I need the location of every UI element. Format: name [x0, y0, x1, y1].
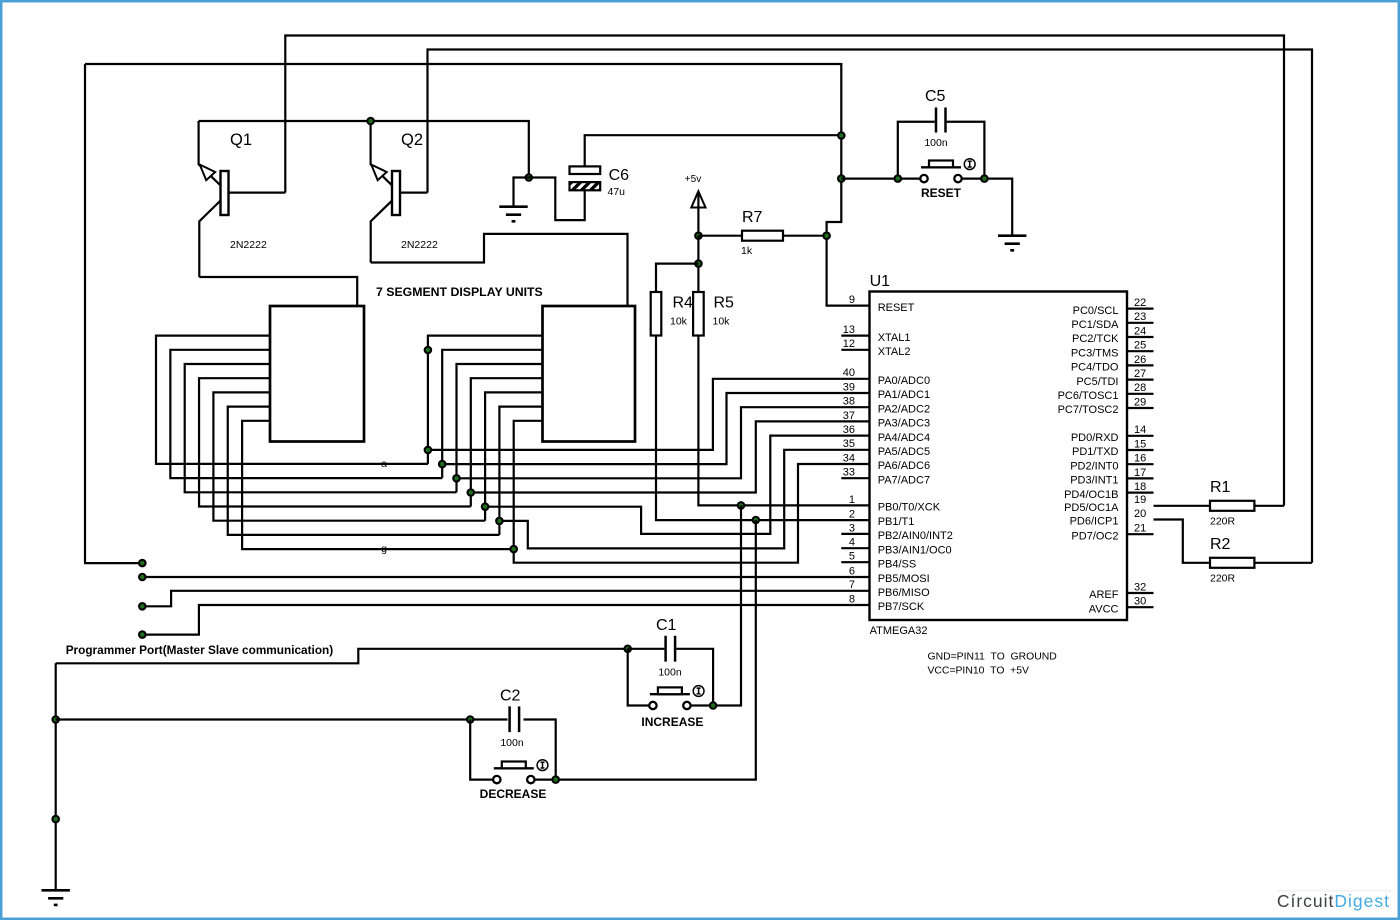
- svg-text:R5: R5: [714, 295, 735, 312]
- wire increase feed: [56, 649, 628, 664]
- svg-text:PD1/TXD: PD1/TXD: [1072, 446, 1119, 458]
- wire display2 segment e: [485, 392, 542, 520]
- svg-text:1k: 1k: [741, 245, 753, 257]
- pin 27 PC5/TDI: [1076, 368, 1153, 388]
- pin 2 PB1/T1: [849, 508, 915, 528]
- node reset row left: [837, 174, 846, 183]
- node C5 right: [980, 174, 989, 183]
- pin 19 PD5/OC1A: [1064, 494, 1146, 514]
- capacitor C5 (100n): [898, 108, 985, 179]
- ground G2: [998, 236, 1026, 251]
- wire rail3 to RESET pin: [85, 64, 870, 306]
- 7-segment display block 1: [270, 306, 364, 442]
- wire +5v down to R5: [697, 236, 699, 292]
- node C6-ground junction: [525, 173, 534, 182]
- svg-text:29: 29: [1134, 396, 1146, 408]
- svg-text:40: 40: [843, 367, 855, 379]
- pin 34 PA6/ADC6: [843, 452, 930, 472]
- svg-text:220R: 220R: [1210, 573, 1236, 585]
- pin 28 PC6/TOSC1: [1058, 382, 1154, 402]
- node PB1-DECREASE junction: [752, 516, 761, 525]
- wire C6 bottom lead: [529, 178, 585, 221]
- wire R4 to PB1 row: [656, 336, 870, 521]
- svg-text:R2: R2: [1210, 536, 1231, 553]
- transistor Q1: [199, 121, 286, 277]
- pin 8 PB7/SCK: [849, 593, 925, 613]
- wire PD6 to R2: [1154, 520, 1211, 563]
- resistor R4: [651, 292, 662, 336]
- svg-text:R4: R4: [673, 295, 694, 312]
- pin 30 AVCC: [1089, 596, 1154, 616]
- wire button INCREASE right: [691, 704, 713, 706]
- pin 1 PB0/T0/XCK: [849, 494, 941, 514]
- ground G1: [499, 207, 527, 222]
- node segment b junction: [438, 460, 447, 469]
- wire INCREASE vertical: [713, 505, 741, 705]
- wire display1 segment e: [213, 392, 485, 520]
- wire C1 to button left: [628, 649, 650, 706]
- svg-text:ATMEGA32: ATMEGA32: [870, 625, 928, 637]
- wire R5 to PB0 row: [698, 336, 869, 506]
- svg-text:10k: 10k: [670, 316, 688, 328]
- svg-text:30: 30: [1134, 596, 1146, 608]
- push button INCREASE: [649, 686, 704, 710]
- push button RESET: [920, 159, 975, 183]
- wire display1 segment c: [185, 364, 457, 492]
- pin 17 PD3/INT1: [1070, 467, 1153, 487]
- svg-text:25: 25: [1134, 340, 1146, 352]
- svg-text:PB1/T1: PB1/T1: [878, 516, 915, 528]
- node C5 left: [894, 174, 903, 183]
- svg-text:AREF: AREF: [1089, 589, 1119, 601]
- node port 1: [138, 559, 147, 568]
- wire to ground G1: [514, 178, 529, 207]
- wire left ground rail: [55, 663, 57, 890]
- svg-text:XTAL1: XTAL1: [878, 332, 911, 344]
- wire Q1 emitter to display1: [199, 277, 357, 306]
- pin 6 PB5/MOSI: [849, 565, 930, 585]
- wire DECREASE vertical: [556, 520, 756, 780]
- svg-text:PC1/SDA: PC1/SDA: [1071, 319, 1119, 331]
- wire net-e to PA4: [485, 436, 869, 534]
- svg-text:PB5/MOSI: PB5/MOSI: [878, 573, 930, 585]
- pin 9 RESET: [849, 294, 915, 314]
- svg-text:22: 22: [1134, 297, 1146, 309]
- wire +5v to R7: [698, 235, 742, 237]
- node segment c junction: [452, 474, 461, 483]
- resistor R1: [1210, 501, 1254, 511]
- wire button DECREASE right: [535, 778, 556, 780]
- wire display1 segment g: [242, 421, 514, 549]
- wire C6 top lead to rail: [585, 135, 842, 166]
- svg-text:PC6/TOSC1: PC6/TOSC1: [1058, 390, 1119, 402]
- pin 22 PC0/SCL: [1073, 297, 1154, 317]
- svg-text:Q2: Q2: [401, 131, 423, 149]
- pin 20 PD6/ICP1: [1070, 508, 1147, 528]
- svg-text:U1: U1: [870, 273, 891, 290]
- node R4-R5 junction: [694, 259, 703, 268]
- svg-text:C1: C1: [656, 617, 677, 634]
- capacitor C6 (electrolytic 47u): [570, 166, 601, 190]
- svg-text:PA4/ADC4: PA4/ADC4: [878, 432, 930, 444]
- capacitor C2 (100n): [510, 706, 556, 779]
- svg-text:37: 37: [843, 410, 855, 422]
- svg-text:33: 33: [843, 467, 855, 479]
- pin 3 PB2/AIN0/INT2: [841, 522, 953, 542]
- svg-text:36: 36: [843, 424, 855, 436]
- pin 38 PA2/ADC2: [843, 396, 930, 416]
- svg-text:PC2/TCK: PC2/TCK: [1072, 333, 1119, 345]
- svg-text:C6: C6: [609, 167, 630, 184]
- pin 4 PB3/AIN1/OC0: [841, 537, 951, 557]
- logo rule: [1277, 890, 1393, 891]
- node segment g junction: [509, 545, 518, 554]
- wire R7 to reset node: [783, 235, 827, 237]
- pin 12 XTAL2: [841, 338, 910, 358]
- node decrease tap: [51, 715, 60, 724]
- svg-text:PB6/MISO: PB6/MISO: [878, 587, 930, 599]
- node segment a junction: [424, 446, 433, 455]
- svg-text:Q1: Q1: [230, 131, 252, 149]
- wire PD5 to R1: [1154, 505, 1211, 507]
- svg-text:PD6/ICP1: PD6/ICP1: [1070, 516, 1119, 528]
- svg-text:PA2/ADC2: PA2/ADC2: [878, 403, 930, 415]
- wire display1 segment f: [228, 407, 500, 535]
- svg-text:4: 4: [849, 537, 855, 549]
- pin 21 PD7/OC2: [1071, 523, 1153, 543]
- wire Q1 top rail to C6 node: [199, 121, 529, 178]
- svg-text:INCREASE: INCREASE: [641, 715, 703, 729]
- svg-text:PA7/ADC7: PA7/ADC7: [878, 474, 930, 486]
- resistor R5: [693, 292, 704, 336]
- svg-text:PB0/T0/XCK: PB0/T0/XCK: [878, 502, 941, 514]
- svg-text:18: 18: [1134, 481, 1146, 493]
- svg-text:26: 26: [1134, 354, 1146, 366]
- wire net-b to PA1: [442, 393, 869, 464]
- svg-text:23: 23: [1134, 311, 1146, 323]
- svg-text:100n: 100n: [500, 737, 524, 749]
- svg-text:39: 39: [843, 381, 855, 393]
- wire display1 segment a: [156, 336, 428, 464]
- svg-text:2N2222: 2N2222: [401, 239, 438, 251]
- svg-text:47u: 47u: [608, 186, 626, 198]
- pin 16 PD2/INT0: [1070, 453, 1153, 473]
- pin 13 XTAL1: [841, 324, 910, 344]
- capacitor C1 (100n): [628, 636, 713, 706]
- pin 23 PC1/SDA: [1071, 311, 1153, 331]
- pin 25 PC3/TMS: [1071, 340, 1154, 360]
- svg-text:PA1/ADC1: PA1/ADC1: [878, 389, 930, 401]
- node DECREASE right: [551, 775, 560, 784]
- svg-text:35: 35: [843, 438, 855, 450]
- svg-text:PD3/INT1: PD3/INT1: [1070, 475, 1118, 487]
- wire PB6 row: [142, 591, 869, 607]
- svg-text:20: 20: [1134, 508, 1146, 520]
- pin 15 PD1/TXD: [1072, 438, 1153, 458]
- svg-text:19: 19: [1134, 494, 1146, 506]
- svg-text:PC0/SCL: PC0/SCL: [1073, 305, 1119, 317]
- wire C2 to button left: [470, 720, 493, 780]
- node segment e junction: [481, 502, 490, 511]
- svg-text:PC4/TDO: PC4/TDO: [1071, 362, 1119, 374]
- svg-text:10k: 10k: [713, 316, 731, 328]
- svg-text:GND=PIN11 TO GROUND: GND=PIN11 TO GROUND: [928, 652, 1057, 663]
- svg-text:RESET: RESET: [878, 302, 915, 314]
- svg-text:DECREASE: DECREASE: [480, 787, 547, 801]
- svg-text:PB2/AIN0/INT2: PB2/AIN0/INT2: [878, 530, 953, 542]
- svg-text:24: 24: [1134, 325, 1146, 337]
- svg-text:PD0/RXD: PD0/RXD: [1071, 432, 1119, 444]
- wire Q2-base to rail2 to R2 net: [428, 50, 1313, 563]
- svg-text:220R: 220R: [1210, 516, 1236, 528]
- wire net-f to PA5: [499, 450, 869, 549]
- pin 35 PA5/ADC5: [843, 438, 930, 458]
- node C6-rail junction: [837, 131, 846, 140]
- pin 40 PA0/ADC0: [843, 367, 930, 387]
- node PB0-INCREASE junction: [737, 501, 746, 510]
- svg-text:6: 6: [849, 565, 855, 577]
- transistor Q2: [371, 121, 428, 263]
- svg-text:9: 9: [849, 294, 855, 306]
- svg-text:a: a: [381, 458, 387, 470]
- pin 39 PA1/ADC1: [843, 381, 930, 401]
- svg-text:PA0/ADC0: PA0/ADC0: [878, 375, 930, 387]
- node Q2 collector junction: [366, 117, 375, 126]
- wire button to ground G2: [962, 179, 1013, 236]
- node bundle artifact: [424, 346, 433, 355]
- svg-text:PB7/SCK: PB7/SCK: [878, 601, 925, 613]
- svg-text:100n: 100n: [658, 667, 682, 679]
- resistor R7: [742, 231, 783, 241]
- wire R1 to rail1: [1254, 505, 1284, 507]
- pin 26 PC4/TDO: [1071, 354, 1154, 374]
- svg-text:21: 21: [1134, 523, 1146, 535]
- wire PB5 row: [142, 576, 869, 578]
- wire display2 segment g to PA6: [514, 421, 870, 563]
- svg-text:AVCC: AVCC: [1089, 603, 1119, 615]
- op-amp U1 body (ATMEGA32): [870, 292, 1128, 621]
- svg-text:5: 5: [849, 551, 855, 563]
- svg-text:R7: R7: [742, 209, 763, 226]
- wire display1 segment d: [199, 378, 471, 506]
- svg-text:PC7/TOSC2: PC7/TOSC2: [1058, 404, 1119, 416]
- node segment d junction: [467, 488, 476, 497]
- svg-text:C2: C2: [500, 688, 521, 705]
- node C2 left: [466, 715, 475, 724]
- node +5v: [694, 231, 703, 240]
- wire Q2 emitter to display2: [371, 234, 628, 306]
- node INCREASE right: [709, 701, 718, 710]
- svg-text:g: g: [381, 543, 387, 555]
- svg-text:27: 27: [1134, 368, 1146, 380]
- wire Q1-base to rail1 to R1 net: [285, 36, 1284, 506]
- svg-text:28: 28: [1134, 382, 1146, 394]
- node port 4: [138, 630, 147, 639]
- svg-text:PC5/TDI: PC5/TDI: [1076, 376, 1118, 388]
- svg-text:2: 2: [849, 508, 855, 520]
- push button DECREASE: [493, 760, 548, 784]
- svg-text:12: 12: [843, 338, 855, 350]
- svg-text:PA3/ADC3: PA3/ADC3: [878, 418, 930, 430]
- resistor R2: [1210, 558, 1254, 568]
- node rail artifact: [51, 815, 60, 824]
- svg-text:7: 7: [849, 579, 855, 591]
- svg-text:17: 17: [1134, 467, 1146, 479]
- svg-text:13: 13: [843, 324, 855, 336]
- svg-text:16: 16: [1134, 453, 1146, 465]
- svg-text:CírcuitDigest: CírcuitDigest: [1277, 891, 1390, 911]
- wire net-d to PA3: [471, 421, 870, 492]
- node port 2: [138, 573, 147, 582]
- svg-text:15: 15: [1134, 438, 1146, 450]
- svg-text:32: 32: [1134, 581, 1146, 593]
- svg-text:R1: R1: [1210, 479, 1231, 496]
- node R7-RESET junction: [822, 231, 831, 240]
- svg-text:PD4/OC1B: PD4/OC1B: [1064, 489, 1118, 501]
- svg-text:XTAL2: XTAL2: [878, 346, 911, 358]
- svg-text:VCC=PIN10 TO +5V: VCC=PIN10 TO +5V: [928, 666, 1030, 677]
- svg-text:38: 38: [843, 396, 855, 408]
- ground G3: [42, 890, 70, 905]
- 7-segment display block 2: [543, 306, 636, 442]
- svg-text:PA6/ADC6: PA6/ADC6: [878, 460, 930, 472]
- svg-text:2N2222: 2N2222: [230, 239, 267, 251]
- pin 24 PC2/TCK: [1072, 325, 1153, 345]
- svg-text:PD5/OC1A: PD5/OC1A: [1064, 502, 1119, 514]
- wire left rail down to programmer port: [85, 64, 142, 563]
- pin 18 PD4/OC1B: [1064, 481, 1153, 501]
- wire display2 segment b: [442, 350, 542, 478]
- pin 36 PA4/ADC4: [843, 424, 930, 444]
- pin 29 PC7/TOSC2: [1058, 396, 1154, 416]
- wire net-a to PA0: [428, 379, 870, 450]
- svg-text:C5: C5: [925, 88, 946, 105]
- pin 5 PB4/SS: [841, 551, 916, 571]
- wire display2 segment f: [499, 407, 542, 535]
- svg-text:100n: 100n: [924, 137, 948, 149]
- svg-text:PC3/TMS: PC3/TMS: [1071, 347, 1119, 359]
- node port 3: [138, 602, 147, 611]
- svg-text:1: 1: [849, 494, 855, 506]
- svg-text:+5v: +5v: [685, 174, 701, 185]
- wire display2 segment d: [471, 378, 543, 506]
- svg-text:8: 8: [849, 593, 855, 605]
- wire net-c to PA2: [457, 407, 870, 478]
- wire to R4: [656, 264, 698, 292]
- wire decrease feed: [56, 718, 508, 720]
- node C1 left: [623, 645, 632, 654]
- svg-text:3: 3: [849, 522, 855, 534]
- svg-text:PD2/INT0: PD2/INT0: [1070, 460, 1118, 472]
- pin 33 PA7/ADC7: [841, 467, 930, 487]
- wire R2 to rail2: [1254, 562, 1312, 564]
- svg-text:7 SEGMENT DISPLAY UNITS: 7 SEGMENT DISPLAY UNITS: [376, 285, 543, 299]
- wire display1 segment b: [170, 350, 442, 478]
- svg-text:PB3/AIN1/OC0: PB3/AIN1/OC0: [878, 544, 952, 556]
- pin 32 AREF: [1089, 581, 1153, 601]
- svg-text:34: 34: [843, 452, 855, 464]
- svg-text:PD7/OC2: PD7/OC2: [1071, 530, 1118, 542]
- svg-text:RESET: RESET: [921, 186, 962, 200]
- wire display2 segment a: [428, 336, 543, 464]
- svg-text:14: 14: [1134, 424, 1146, 436]
- wire PB7 row: [142, 605, 869, 635]
- node segment f junction: [495, 517, 504, 526]
- svg-text:PA5/ADC5: PA5/ADC5: [878, 446, 930, 458]
- svg-text:PB4/SS: PB4/SS: [878, 558, 917, 570]
- pin 7 PB6/MISO: [849, 579, 930, 599]
- wire reset row to button: [841, 178, 920, 180]
- power +5v symbol: [691, 191, 705, 236]
- pin 14 PD0/RXD: [1071, 424, 1154, 444]
- wire display2 segment c: [457, 364, 543, 492]
- svg-text:Programmer Port(Master Slave c: Programmer Port(Master Slave communicati…: [66, 643, 334, 657]
- pin 37 PA3/ADC3: [843, 410, 930, 430]
